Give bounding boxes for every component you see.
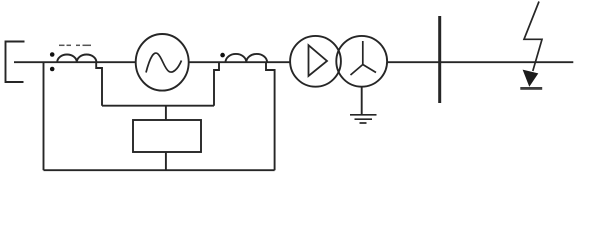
wire (generator to inductor L2) — [189, 61, 290, 63]
wire (L2 left tap) — [214, 62, 219, 105]
polarity dot L2 — [220, 53, 225, 58]
inductor L1 — [57, 54, 96, 62]
generator sine symbol — [146, 53, 182, 72]
wire (right shunt riser) — [266, 62, 275, 170]
lightning fault bolt — [524, 2, 542, 72]
ground — [350, 115, 377, 123]
wire (control box bottom lead) — [165, 152, 167, 170]
polarity dot L1 lower — [50, 67, 55, 72]
wire (bottom return) — [44, 169, 275, 171]
bus bar — [438, 16, 441, 103]
converter U3 circle — [336, 36, 387, 87]
wire (control box top lead) — [165, 106, 167, 120]
dashed coupling line — [59, 44, 91, 46]
converter U2 circle — [290, 36, 341, 87]
wire (converter to line end) — [387, 61, 573, 63]
converter U2 triangle — [309, 45, 328, 76]
wire (source lead) — [14, 61, 136, 63]
wire (inner horizontal link) — [102, 105, 214, 107]
wire (L1 right tap) — [96, 62, 102, 105]
converter U3 arrow symbol — [351, 41, 377, 75]
equivalent-network bracket — [6, 42, 25, 83]
control block box — [133, 120, 201, 152]
fault arrowhead — [523, 70, 539, 87]
polarity dot L1 upper — [50, 52, 55, 57]
generator U1 circle — [136, 34, 189, 91]
inductor L2 — [226, 54, 268, 62]
wire (ground stem) — [361, 87, 363, 115]
wire (left shunt drop) — [43, 62, 45, 170]
fault bar — [520, 87, 542, 90]
